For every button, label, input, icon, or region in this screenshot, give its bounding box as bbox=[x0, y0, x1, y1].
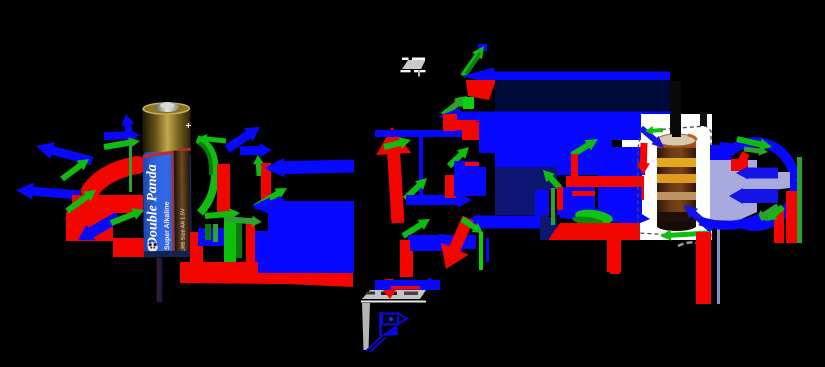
force arrow (red, down, above compass C2) bbox=[382, 279, 398, 299]
electron current arrow (green, down-left, bottom swirl) bbox=[755, 204, 780, 222]
force arrow segment (red block lower-left) bbox=[66, 212, 113, 241]
force arrow fragment (red block 2) bbox=[462, 122, 480, 140]
compass C1 (gray slab icon, top middle) bbox=[401, 58, 426, 77]
E-field tick (small blue, top of wire) bbox=[478, 44, 487, 51]
electron current line (green vertical, right edge) bbox=[797, 157, 802, 243]
E-field block (blue, right of navy block) bbox=[557, 187, 595, 215]
E-field fragment (blue, left of red down arrow) bbox=[410, 236, 462, 251]
E-field arrow (blue, upper-left of battery) bbox=[36, 142, 93, 165]
force bar (red vertical, right swirl 2) bbox=[774, 208, 784, 243]
svg-text:Super Alkaline: Super Alkaline bbox=[164, 201, 172, 250]
B-field arrow (dark blue tongue 1, points left over lavender) bbox=[736, 167, 778, 180]
force column (red, right of battery bottom) bbox=[190, 232, 203, 263]
electron current arrow (green, small left, coil top) bbox=[645, 126, 663, 135]
navy block (medium, center-right) bbox=[495, 167, 557, 215]
E-field arrow (blue band, center lower) bbox=[406, 193, 472, 208]
electron current arc (green, hugging battery right side) bbox=[197, 139, 215, 213]
E-field line (thin blue vertical, center) bbox=[419, 136, 423, 196]
force band (red horizontal, center-right) bbox=[566, 176, 642, 187]
battery reflection streak below bbox=[157, 258, 159, 302]
force column (red, below battery right 2) bbox=[246, 218, 255, 265]
force dot (red, card bottom-left) bbox=[700, 237, 708, 244]
lavender arrow body bbox=[710, 160, 790, 221]
black notch (gap between field bands) bbox=[478, 153, 495, 167]
E-field arrow (blue, diagonal up-right of battery top) bbox=[225, 127, 261, 153]
electron current block (bright green square) bbox=[463, 97, 474, 109]
green field line (thin vertical, left of battery) bbox=[129, 139, 132, 192]
force arrow (red block under top arrow) bbox=[466, 80, 496, 100]
electron current stripe (dark green below battery 2) bbox=[213, 224, 218, 242]
force block (red, in swirl upper) bbox=[731, 159, 748, 171]
electron current arrow (green, diag up-right, top wire) bbox=[461, 46, 485, 78]
electron current arrow (green, diag up-left center-right) bbox=[543, 170, 562, 190]
force arrow (red bar 2, right of battery) bbox=[261, 163, 271, 204]
electron current arrow (green, up-right mid-left) bbox=[60, 159, 89, 181]
E-field block (blue, center right) bbox=[454, 161, 486, 196]
E-field arrow (blue, short, toward battery top-left) bbox=[104, 129, 140, 142]
E-field region (bright blue, mid) bbox=[479, 140, 645, 175]
B-field arrowhead (blue, on top arc) bbox=[714, 142, 736, 157]
force arrow (red bar, center) bbox=[445, 175, 456, 198]
electron current arrow (green, diag up-right near coil) bbox=[570, 139, 598, 158]
force bar (red vertical small) bbox=[557, 187, 563, 210]
force stripe (red, inside blue band) bbox=[391, 286, 420, 290]
E-field arrow (blue, short right of battery) bbox=[240, 143, 272, 157]
electron current arrow (green, right, top of swirl 2) bbox=[744, 146, 768, 156]
force band (red thin, center-right 2) bbox=[572, 191, 595, 196]
E-field band (thin blue across red arrowhead) bbox=[375, 130, 475, 137]
E-field strip (blue, below navy block) bbox=[535, 190, 549, 222]
electron current arrow (green, top of battery-right arc) bbox=[198, 134, 226, 144]
electron current arrow (green small, left edge) bbox=[446, 98, 464, 113]
B-field arrow (dark blue tongue 2, points left over lavender) bbox=[729, 188, 778, 204]
svg-text:+: + bbox=[185, 121, 191, 132]
force trail (thin red line down card left) bbox=[642, 176, 645, 200]
force arrow fragment (red block right of band) bbox=[443, 114, 457, 131]
E-field arrow (big blue, pointing left toward battery) bbox=[264, 158, 354, 177]
E-field arrow (blue diagonal, down-left bottom center) bbox=[438, 234, 465, 255]
force bar (red vertical, below coil-left) bbox=[607, 223, 621, 272]
battery B1 (Double Panda AA cell photo) bbox=[142, 102, 193, 258]
force arrow (long red band under blue bundle) bbox=[180, 262, 353, 287]
electron current arrow (green, right-down near bottom) bbox=[224, 216, 262, 227]
electron current arrow (green, diag, center2) bbox=[447, 147, 469, 168]
electron current column (dark green edge) bbox=[236, 222, 242, 258]
force band (red, bottom center-right) bbox=[548, 223, 640, 240]
svg-text:LR6 Size AA 1.5V: LR6 Size AA 1.5V bbox=[180, 208, 186, 252]
electron current arrow (green, diag up-right, center) bbox=[403, 178, 427, 201]
E-field arrow (blue, into coil top-left) bbox=[639, 126, 664, 148]
electron current arrow (green, up-right lower-left) bbox=[65, 190, 96, 213]
electron current stripe (dark green below battery) bbox=[205, 224, 211, 240]
electron current arrow (green, diag up-right, lower wire) bbox=[401, 219, 430, 239]
svg-text:Double Panda: Double Panda bbox=[145, 164, 161, 248]
force line (red thin, crossing card left) bbox=[600, 177, 642, 181]
electron current arrow (green, left along card bottom) bbox=[660, 230, 708, 241]
E-field arrow (long blue, points left, top) bbox=[462, 68, 670, 85]
electron current arrow (green, right, at battery bottom) bbox=[205, 208, 240, 219]
wire into coil (black, over navy slab and card) bbox=[670, 81, 681, 139]
force arrow (red bar, right of battery) bbox=[217, 164, 230, 214]
wire line (dark navy vertical, below coil right) bbox=[717, 225, 720, 304]
E-field arrow (blue, diagonal down-left below battery) bbox=[78, 212, 121, 240]
force arrow fragment (red, bottom left corner of center) bbox=[400, 240, 413, 277]
navy column (right end of mid-bottom band) bbox=[545, 217, 557, 240]
electron current line (bright green vertical, bottom center) bbox=[479, 232, 483, 270]
electron current arrow (green, right, top of swirl) bbox=[736, 136, 772, 150]
compass C2 (gray slab with needle, bottom middle) bbox=[361, 290, 426, 352]
electron current arrow (green, left of battery top) bbox=[104, 137, 141, 150]
E-field arrow (blue, small right, bottom center) bbox=[400, 277, 440, 290]
electron current arrow (green lens, nearly edge-on) bbox=[574, 207, 614, 226]
force arrow (red, down-left, in swirl) bbox=[736, 151, 750, 170]
E-field band (blue, above compass C2) bbox=[375, 280, 440, 290]
E-field arrow bundle (blue block below battery-right) bbox=[254, 211, 354, 273]
electron current arrow (green, down-left, right swirl) bbox=[765, 205, 785, 221]
force arrow (red arc, left of battery) bbox=[90, 165, 137, 191]
force arrow (big red, down-left at bottom center) bbox=[441, 216, 474, 269]
white photo card behind coil bbox=[622, 114, 712, 240]
electron current arrow (green, right, below-left of battery) bbox=[110, 208, 144, 225]
E-field line (blue vertical thin, bottom center) bbox=[486, 238, 489, 262]
navy slab bbox=[495, 80, 670, 114]
electron current arrow (green, vertical up) bbox=[253, 155, 264, 176]
electron current arrow (green, down-right over red) bbox=[460, 217, 483, 234]
electron current column (bright green, down below battery) bbox=[224, 222, 236, 266]
E-field band (bright blue, wide, upper) bbox=[479, 113, 641, 140]
force arrow (red block mid-left) bbox=[444, 120, 482, 136]
blue block (ring left-top, over card corner) bbox=[710, 145, 731, 160]
gray wire arc below card bbox=[678, 242, 701, 246]
force arrow (red, down, coil left) bbox=[637, 143, 650, 175]
E-field arrow (blue, up, left of battery top) bbox=[121, 114, 134, 139]
force bar (red vertical, below coil) bbox=[696, 232, 711, 304]
electron current arrow (green, diag up-right lower) bbox=[254, 188, 288, 210]
force bar (red vertical, right swirl) bbox=[786, 191, 797, 243]
E-field block (blue, over card left, upper) bbox=[598, 147, 642, 177]
electron current line (green vertical, center-right) bbox=[551, 188, 555, 225]
E-field block (blue, over card left, lower) bbox=[598, 183, 642, 219]
electron current arrow (green, diag up-right, second) bbox=[441, 96, 467, 117]
E-field arrow (long blue, points left, mid) bbox=[438, 108, 670, 124]
E-field arrow (blue thin diagonal lower) bbox=[254, 196, 284, 211]
force bar (red left of card) bbox=[610, 240, 620, 274]
dashed measurement loop on card bbox=[638, 126, 711, 237]
E-field arrow (blue, pointing right toward coil) bbox=[560, 206, 651, 227]
E-field band (blue, below navy slab) bbox=[476, 121, 670, 140]
E-field strip (blue, left of navy block) bbox=[465, 162, 479, 192]
navy fragment (left of red band) bbox=[540, 215, 549, 240]
electron current arrow (green, over red arrowhead) bbox=[383, 137, 411, 150]
force bar (red vertical, center-right) bbox=[571, 154, 578, 187]
E-field arrow (blue, left of battery) bbox=[16, 183, 80, 200]
force arrow segment (red block at battery bottom-left) bbox=[113, 238, 151, 257]
force arrow segment (red band lower-left) bbox=[72, 195, 143, 213]
B-field loop (blue ellipse ring around coil right) bbox=[715, 142, 795, 226]
E-field arrow (blue, pointing left, lower band) bbox=[252, 198, 354, 215]
force arrow (big red, pointing up) bbox=[376, 127, 411, 223]
B-field loop bottom arc (blue) bbox=[700, 218, 760, 225]
E-field arrow (blue band, mid-bottom pointing left) bbox=[463, 214, 549, 230]
E-field patch (blue, below battery) bbox=[198, 228, 224, 246]
force line (red thin, left strip) bbox=[465, 162, 479, 166]
E-field arrow (blue, up-left into coil bottom) bbox=[684, 205, 714, 233]
E-field band (blue, bottom center-left) bbox=[408, 235, 476, 249]
